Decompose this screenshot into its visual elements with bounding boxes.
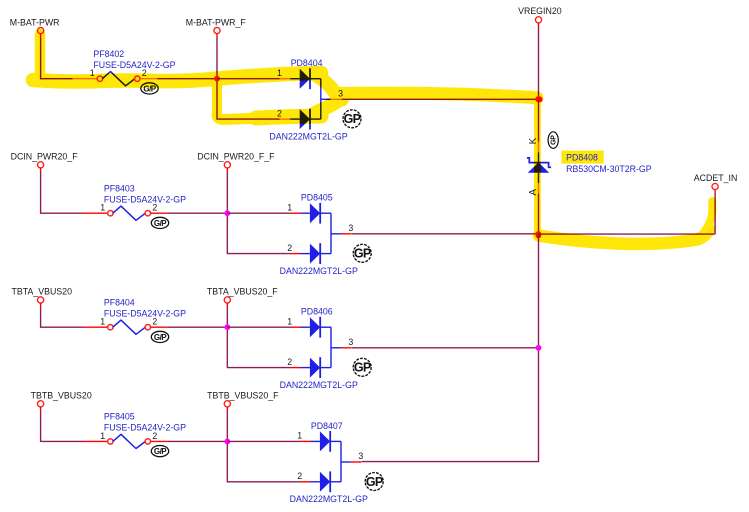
diode PD8405 <box>280 193 358 276</box>
svg-text:M-BAT-PWR: M-BAT-PWR <box>10 17 60 27</box>
wire <box>227 212 290 214</box>
diode PD8407 pin 1 <box>300 440 311 442</box>
wire <box>538 234 540 348</box>
wire <box>352 347 539 349</box>
wire <box>168 212 228 214</box>
diode PD8407 <box>290 421 368 504</box>
wire <box>226 172 228 213</box>
wire <box>216 38 218 79</box>
diode PD8404 element B <box>300 109 310 129</box>
wire <box>341 98 538 100</box>
fuse PF8405 <box>104 412 186 449</box>
svg-text:DAN222MGT2L-GP: DAN222MGT2L-GP <box>290 494 368 504</box>
diode PD8407 pin 2 <box>300 481 311 483</box>
node DCIN_PWR20_F <box>11 152 79 168</box>
diode PD8406 element B <box>310 358 320 378</box>
node M-BAT-PWR_F <box>186 17 247 33</box>
svg-text:FUSE-D5A24V-2-GP: FUSE-D5A24V-2-GP <box>104 308 186 318</box>
wire <box>41 307 83 327</box>
diode PD8404 element A <box>300 69 310 89</box>
svg-text:FUSE-D5A24V-2-GP: FUSE-D5A24V-2-GP <box>104 194 186 204</box>
svg-text:RB530CM-30T2R-GP: RB530CM-30T2R-GP <box>566 164 652 174</box>
wire <box>362 348 539 462</box>
fuse PF8403 pin 1 <box>83 212 108 214</box>
diode PD8406 pin 3 <box>331 347 341 349</box>
svg-text:DCIN_PWR20_F: DCIN_PWR20_F <box>11 152 79 162</box>
svg-text:G/P: G/P <box>154 219 167 228</box>
junction <box>537 96 543 102</box>
fuse PF8403 pin 2 <box>145 211 150 216</box>
wire <box>227 440 300 442</box>
svg-text:1: 1 <box>297 431 302 441</box>
wire <box>40 168 42 173</box>
node VREGIN20 <box>518 6 562 23</box>
stamp GP <box>151 217 168 228</box>
stamp GP <box>365 473 383 491</box>
svg-text:1: 1 <box>287 203 292 213</box>
wire <box>226 168 228 173</box>
svg-text:2: 2 <box>152 203 157 213</box>
fuse PF8403 <box>104 183 186 220</box>
wire <box>714 193 716 234</box>
svg-text:GP: GP <box>366 475 383 489</box>
stamp GP <box>151 446 168 457</box>
stamp GP <box>548 132 558 149</box>
wire <box>41 411 83 441</box>
svg-text:GP: GP <box>354 361 371 375</box>
diode PD8406 element A <box>310 317 320 337</box>
wire <box>538 99 540 141</box>
junction <box>536 232 542 238</box>
diode PD8404 <box>269 58 347 141</box>
svg-text:PD8408: PD8408 <box>566 153 598 163</box>
svg-text:GP: GP <box>344 112 361 126</box>
fuse PF8404 <box>104 297 186 334</box>
diode PD8408 <box>527 158 551 173</box>
svg-text:VREGIN20: VREGIN20 <box>518 6 562 16</box>
stamp GP <box>343 110 361 128</box>
wire <box>226 303 228 308</box>
svg-text:DAN222MGT2L-GP: DAN222MGT2L-GP <box>280 380 358 390</box>
svg-text:PD8405: PD8405 <box>301 193 333 203</box>
wire <box>538 23 540 28</box>
diode PD8407 element B <box>320 472 330 492</box>
svg-text:FUSE-D5A24V-2-GP: FUSE-D5A24V-2-GP <box>104 423 186 433</box>
wire <box>227 213 290 253</box>
stamp GP <box>151 331 168 342</box>
fuse PF8404 pin 1 <box>83 326 108 328</box>
svg-text:GP: GP <box>354 247 371 261</box>
diode PD8406 pin 1 <box>290 326 301 328</box>
svg-text:PD8407: PD8407 <box>311 421 343 431</box>
junction <box>224 324 230 330</box>
svg-text:G/P: G/P <box>154 333 167 342</box>
diode PD8405 pin 2 <box>290 253 301 255</box>
svg-text:TBTA_VBUS20: TBTA_VBUS20 <box>12 287 73 297</box>
wire <box>40 303 42 308</box>
svg-text:2: 2 <box>287 243 292 253</box>
diode PD8408 pin A <box>538 173 540 183</box>
wire <box>40 34 42 39</box>
node TBTB_VBUS20 <box>31 391 92 407</box>
svg-text:2: 2 <box>152 317 157 327</box>
svg-text:DAN222MGT2L-GP: DAN222MGT2L-GP <box>269 131 347 141</box>
junction <box>214 76 220 82</box>
wire <box>538 27 540 99</box>
fuse PF8402 <box>93 49 175 86</box>
diode PD8404 pin 1 <box>280 78 291 80</box>
fuse PF8402 pin 1 <box>73 78 98 80</box>
wire <box>40 407 42 412</box>
svg-text:TBTA_VBUS20_F: TBTA_VBUS20_F <box>207 287 278 297</box>
stamp GP <box>353 244 371 262</box>
junction <box>224 210 230 216</box>
node TBTA_VBUS20_F <box>207 287 278 303</box>
diode PD8404 pin 2 <box>280 118 291 120</box>
junction <box>536 345 542 351</box>
highlight M-BAT-PWR to ACDET_IN path <box>33 34 712 244</box>
wire <box>714 190 716 195</box>
stamp GP <box>141 83 158 94</box>
fuse PF8405 pin 2 <box>145 439 150 444</box>
wire <box>157 78 217 80</box>
svg-text:TBTB_VBUS20_F: TBTB_VBUS20_F <box>207 391 279 401</box>
svg-text:DCIN_PWR20_F_F: DCIN_PWR20_F_F <box>197 152 275 162</box>
wire <box>539 233 716 235</box>
wire <box>41 172 83 213</box>
svg-text:2: 2 <box>287 357 292 367</box>
node ACDET_IN <box>694 173 738 190</box>
wire <box>217 79 280 119</box>
svg-text:3: 3 <box>348 223 353 233</box>
svg-text:2: 2 <box>152 431 157 441</box>
diode PD8405 pin 3 <box>331 233 341 235</box>
wire <box>216 34 218 39</box>
wire <box>352 233 539 235</box>
wire <box>168 326 228 328</box>
svg-text:PF8403: PF8403 <box>104 183 135 193</box>
wire <box>217 78 280 80</box>
fuse PF8402 pin 2 <box>135 76 140 81</box>
diode PD8404 pin 3 <box>321 98 331 100</box>
diode PD8405 pin 1 <box>290 212 301 214</box>
diode PD8408 pin K <box>538 142 540 153</box>
svg-text:PD8406: PD8406 <box>301 307 333 317</box>
svg-text:2: 2 <box>297 471 302 481</box>
stamp GP <box>353 358 371 376</box>
label PD8408 <box>562 151 604 164</box>
svg-text:PF8405: PF8405 <box>104 412 135 422</box>
wire <box>226 307 228 327</box>
diode PD8405 element B <box>310 244 320 264</box>
wire <box>538 194 540 235</box>
svg-text:ACDET_IN: ACDET_IN <box>694 173 738 183</box>
diode PD8405 element A <box>310 203 320 223</box>
wire <box>227 441 300 481</box>
diode PD8407 element A <box>320 431 330 451</box>
node DCIN_PWR20_F_F <box>197 152 275 168</box>
wire <box>227 327 290 367</box>
svg-text:TBTB_VBUS20: TBTB_VBUS20 <box>31 391 92 401</box>
svg-text:3: 3 <box>348 337 353 347</box>
node M-BAT-PWR <box>10 17 60 33</box>
fuse PF8404 pin 2 <box>145 325 150 330</box>
wire <box>226 407 228 412</box>
node TBTA_VBUS20 <box>12 287 73 303</box>
wire <box>226 411 228 441</box>
wire <box>41 38 73 79</box>
diode PD8406 <box>280 307 358 390</box>
svg-text:DAN222MGT2L-GP: DAN222MGT2L-GP <box>280 266 358 276</box>
svg-text:FUSE-D5A24V-2-GP: FUSE-D5A24V-2-GP <box>93 60 175 70</box>
diode PD8407 pin 3 <box>341 461 351 463</box>
svg-text:1: 1 <box>287 317 292 327</box>
diode PD8406 pin 2 <box>290 367 301 369</box>
svg-text:M-BAT-PWR_F: M-BAT-PWR_F <box>186 17 247 27</box>
junction <box>224 439 230 445</box>
svg-text:PF8402: PF8402 <box>93 49 124 59</box>
svg-text:3: 3 <box>358 451 363 461</box>
svg-text:GP: GP <box>551 135 558 145</box>
svg-text:PF8404: PF8404 <box>104 297 135 307</box>
wire <box>227 326 290 328</box>
wire <box>168 440 228 442</box>
fuse PF8405 pin 1 <box>83 440 108 442</box>
node TBTB_VBUS20_F <box>207 391 279 407</box>
svg-text:G/P: G/P <box>154 447 167 456</box>
